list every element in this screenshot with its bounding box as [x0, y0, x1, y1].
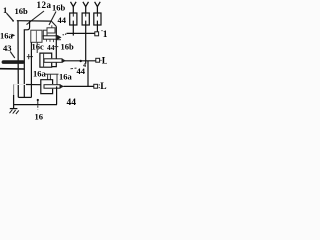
piston bar [2, 60, 25, 64]
mid column wire [30, 42, 32, 97]
svg-text:16a: 16a [0, 30, 14, 40]
nozzle N2 [83, 2, 89, 13]
rail to port L mid [65, 60, 96, 62]
wire link rail2 to rail3 [87, 61, 89, 87]
pilot cell V1 right [43, 30, 47, 36]
port square L bottom [94, 84, 98, 88]
drain riser left [13, 95, 15, 105]
stubs into V3 [48, 74, 51, 79]
tank right wall [24, 21, 29, 97]
svg-text:44: 44 [58, 15, 67, 25]
valve box V1 [31, 30, 42, 42]
tick on riser [54, 46, 58, 48]
rail1 top [17, 20, 51, 22]
link line above V3 [44, 73, 59, 75]
tank bottom [18, 96, 31, 98]
svg-text:16b: 16b [52, 3, 66, 13]
valve box V2 [40, 53, 52, 67]
svg-text:16a: 16a [59, 71, 73, 81]
rail to port 1 [67, 32, 95, 34]
leader for label 1 [7, 14, 13, 21]
dots row1 [63, 34, 64, 35]
label 44 right [71, 67, 77, 70]
nozzle N3 [95, 2, 101, 13]
drain riser left upper [13, 84, 15, 95]
rod arrow row2 [44, 59, 62, 63]
svg-text:16: 16 [35, 112, 44, 121]
wire N3 drop [96, 21, 98, 32]
svg-text:44: 44 [77, 66, 86, 76]
leader for 12a [27, 11, 45, 25]
stub under arrow row1 [56, 39, 61, 41]
rod arrow row3 [44, 85, 60, 89]
svg-text:43: 43 [3, 43, 12, 53]
nozzle N1 [71, 2, 77, 13]
leader for 16b top-right [49, 12, 56, 26]
ticks under rod row1 [47, 39, 54, 42]
valve box V3 [41, 80, 53, 94]
port square 1 [95, 32, 99, 36]
suction line left [0, 68, 25, 70]
wire N1 drop [72, 21, 74, 36]
svg-text:1: 1 [103, 30, 107, 40]
wire N2 column down to rail2 [85, 21, 87, 64]
riser x56 [52, 26, 57, 66]
rod arrow row1 [43, 36, 57, 39]
svg-text:12a: 12a [37, 0, 52, 10]
svg-text:44: 44 [47, 43, 55, 52]
ground [13, 105, 15, 109]
svg-text:16b: 16b [61, 42, 75, 52]
svg-text:L: L [102, 56, 107, 66]
svg-text:16b: 16b [15, 6, 29, 16]
bottom rail [14, 104, 57, 106]
pilot box row1 [47, 28, 55, 33]
nozzle N3 valve box [94, 13, 101, 25]
rail3 left faint [14, 83, 26, 85]
junction dot mid rail [80, 60, 82, 62]
arrow for 16a left [12, 34, 16, 38]
plus mark [27, 54, 33, 59]
riser right of V3 upper [56, 74, 58, 85]
stub below crossing [51, 25, 53, 28]
rail3 left [26, 84, 41, 86]
link V1 to V2 [36, 42, 38, 53]
rail to port L bottom [64, 85, 94, 87]
label port 1 [101, 30, 102, 31]
probe dot above bottom rail [37, 99, 39, 101]
leader for 43 [10, 52, 15, 59]
riser V3 to bottom rail [56, 86, 58, 104]
svg-text:16c: 16c [32, 41, 45, 51]
nozzle N1 valve box [70, 13, 77, 25]
diagonal connector rail1 to riser [51, 21, 56, 27]
svg-text:L: L [100, 82, 106, 92]
tank left wall [17, 21, 19, 98]
svg-text:44: 44 [67, 98, 77, 108]
svg-text:16a: 16a [33, 68, 47, 78]
nozzle N2 valve box [82, 13, 89, 25]
port square L mid [96, 58, 100, 62]
dashed leader for 16 bottom [37, 106, 39, 110]
